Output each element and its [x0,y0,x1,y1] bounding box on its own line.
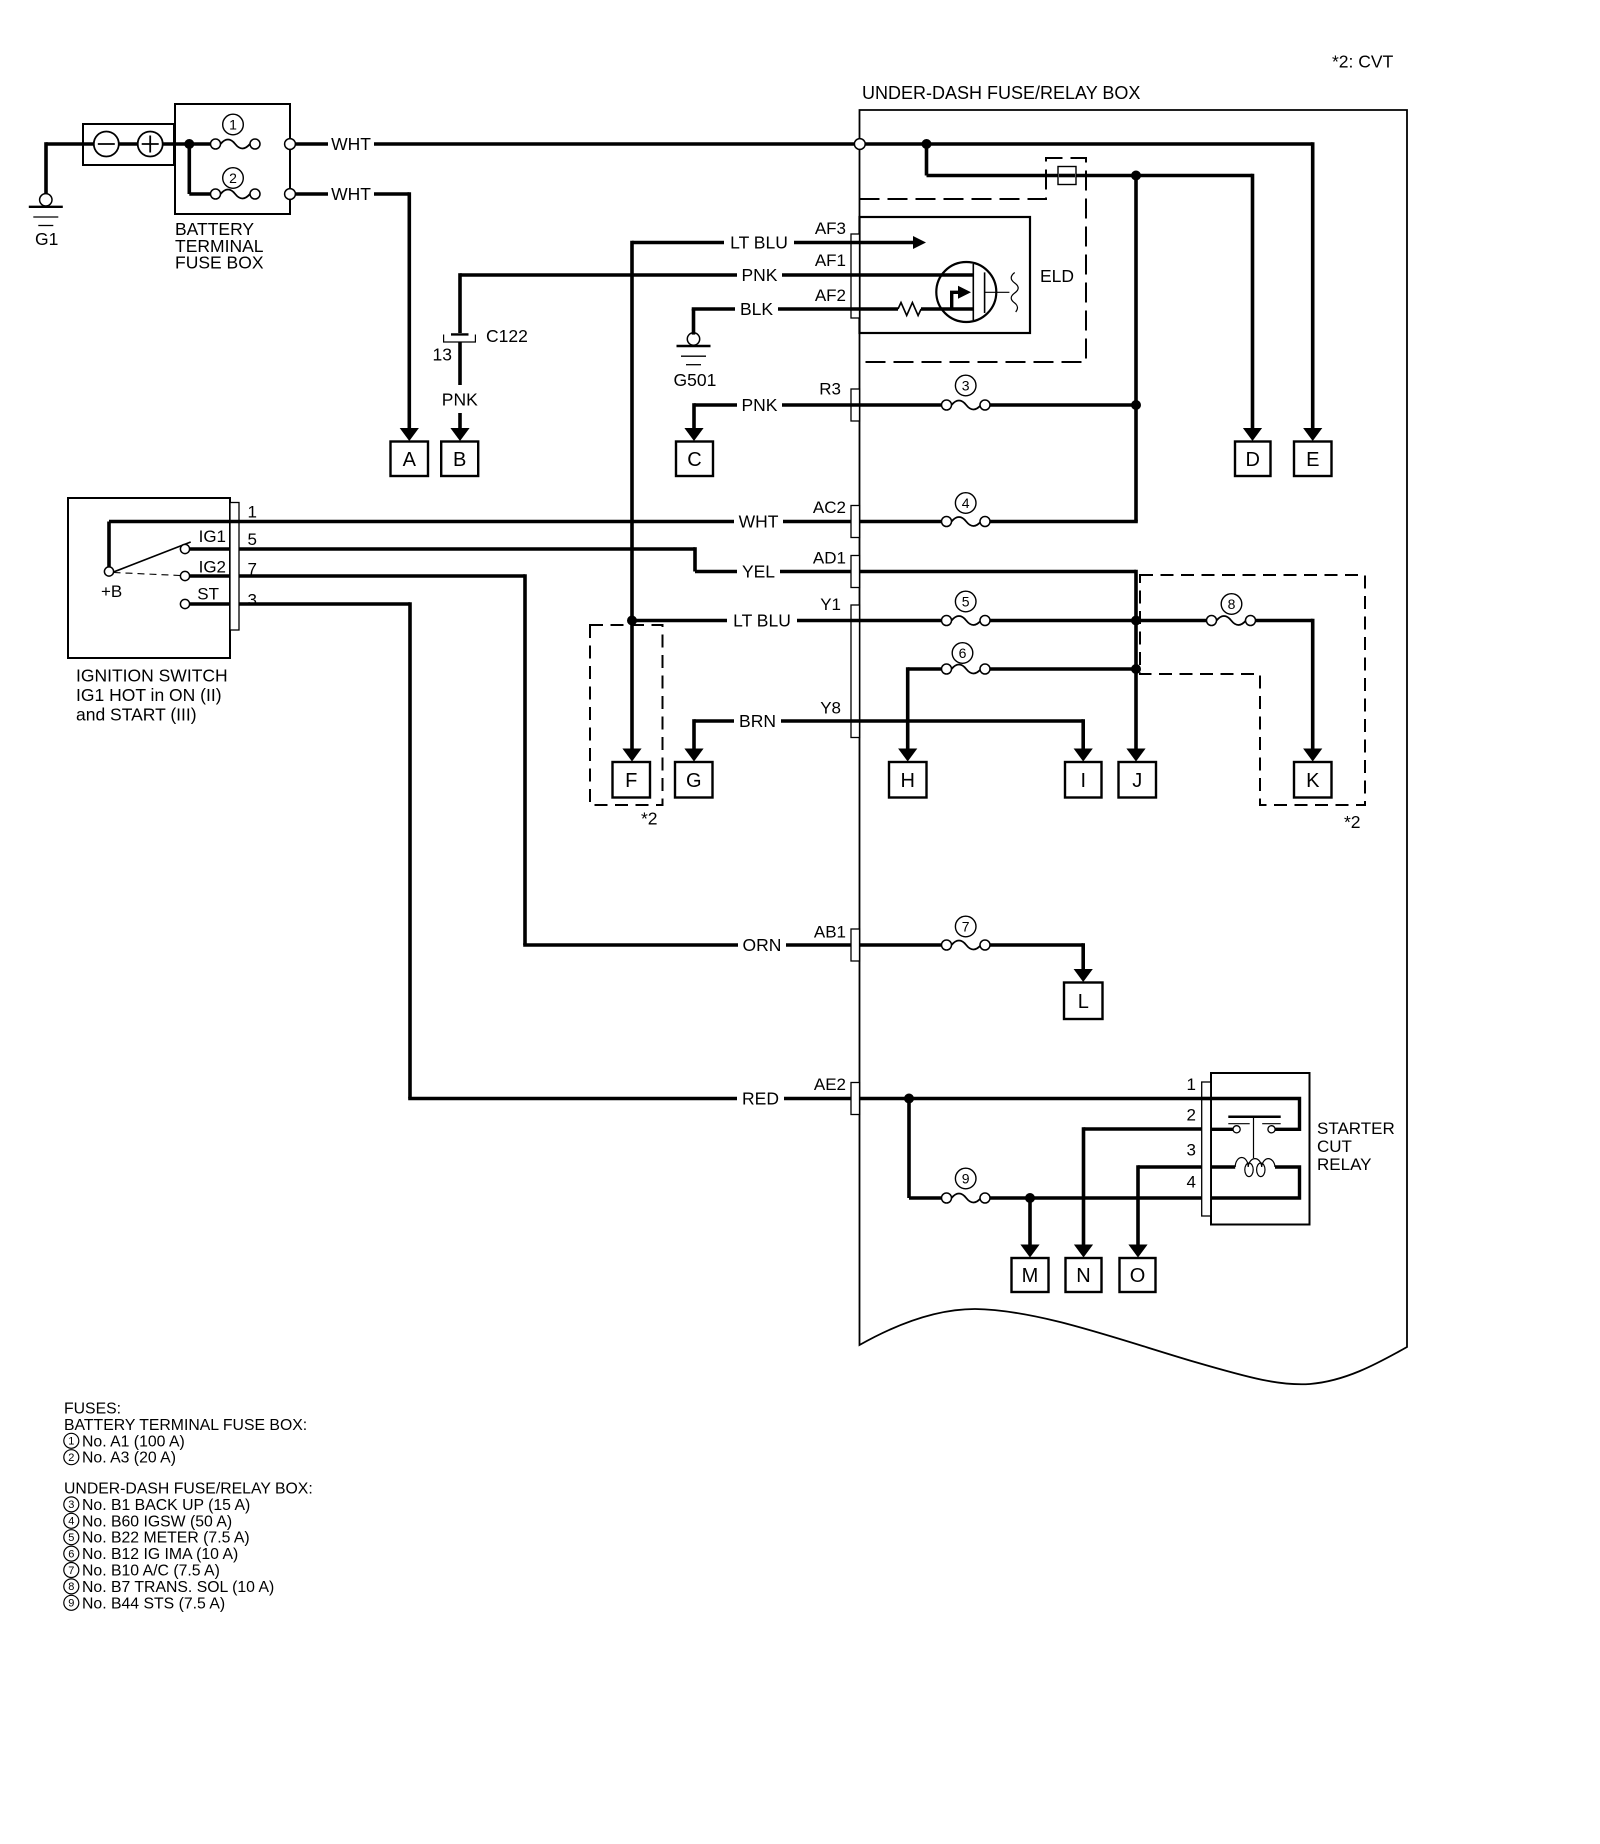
svg-text:+B: +B [101,582,122,601]
svg-text:J: J [1132,770,1142,792]
CVT dashed enclosure around fuse 8 and connector K [1140,575,1365,805]
arrow into M [1020,1245,1039,1258]
wire Y1 inside box to fuse 5 [860,619,942,623]
wire WHT ignition pin1 to AC2 [239,520,734,524]
ground G501 [687,333,699,345]
svg-text:D: D [1246,449,1260,471]
svg-text:AC2: AC2 [813,498,846,517]
svg-text:IG2: IG2 [199,558,226,577]
svg-text:AE2: AE2 [814,1075,846,1094]
wire LT BLU to AF3 [632,241,724,245]
svg-text:RED: RED [742,1089,779,1109]
connector J [1119,762,1157,798]
wire BLK from G501 to AF2 [692,309,696,335]
svg-text:H: H [901,770,915,792]
svg-text:6: 6 [959,645,967,661]
svg-text:E: E [1306,449,1319,471]
wire relay pin 2 to N [1084,1127,1202,1131]
arrow into G [684,749,703,762]
starter cut relay box [1211,1073,1310,1225]
svg-text:STARTER: STARTER [1317,1119,1395,1138]
output squiggle [1011,273,1018,313]
svg-text:A: A [403,449,417,471]
wire fuse 6 to H corner [908,667,942,671]
fuse 1 No. A1 [221,140,250,149]
wire AE2 to relay pin 1 [860,1097,1211,1101]
wire YEL ignition pin5 to AD1 [239,547,695,551]
arrow into F [622,749,641,762]
transistor channel bar [972,264,974,320]
svg-text:No. B12 IG IMA (10 A): No. B12 IG IMA (10 A) [82,1546,238,1563]
wire relay pin 3 to O [1138,1165,1202,1169]
wire battery feed [46,142,212,146]
svg-text:AF2: AF2 [815,286,846,305]
connector C [676,442,713,477]
relay pin3 internal wire [1211,1165,1236,1168]
terminal AE2 [851,1083,860,1115]
svg-text:RELAY: RELAY [1317,1155,1372,1174]
fuse 2 output terminal [285,189,296,200]
svg-text:ST: ST [197,585,219,604]
resistor in ELD [898,303,921,316]
connector F [613,762,651,798]
wire junction to fuse 2 [188,144,192,194]
svg-text:5: 5 [962,593,970,609]
relay coil [1235,1158,1275,1168]
relay contact fixed bars [1228,1123,1249,1125]
switch blade +B to IG1 [114,542,191,572]
svg-text:2: 2 [229,170,237,186]
svg-text:No. A1 (100 A): No. A1 (100 A) [82,1433,185,1450]
svg-text:PNK: PNK [742,265,778,285]
relay pin1 internal wire [1211,1099,1300,1130]
wire AD1 inside box to J vertical [860,570,1137,574]
wire PNK below C122 to B [458,342,462,385]
connector L [1064,983,1103,1020]
terminal AB1 [851,929,860,961]
svg-text:YEL: YEL [742,562,775,582]
svg-text:No. B44 STS (7.5 A): No. B44 STS (7.5 A) [82,1595,225,1612]
vertical bus AD1 to J [1134,570,1138,751]
dashed blade +B to IG2 [114,573,181,576]
wire AB1 inside box to fuse 7 [860,943,942,947]
svg-text:PNK: PNK [442,390,478,410]
svg-text:BRN: BRN [739,711,776,731]
arrow into B [450,428,469,441]
svg-text:O: O [1130,1265,1146,1287]
terminal R3 [851,389,860,421]
node ELD feed junction [1131,171,1141,181]
battery terminal fuse box [175,104,290,214]
ground G1 [40,194,52,206]
svg-text:7: 7 [68,1565,74,1577]
svg-text:3: 3 [248,591,257,610]
wire WHT inside box to E [865,142,1312,146]
terminal AD1 [851,556,860,588]
wire R3 inside box to fuse 3 [860,403,942,407]
arrow into N [1074,1245,1093,1258]
wire PNK to AF1 [460,273,737,277]
transistor gate arrow [952,292,959,309]
connector square on ELD feed [1058,167,1076,185]
main vertical bus D-branch to AC2 [1134,176,1138,522]
svg-text:3: 3 [1187,1141,1196,1160]
relay connector strip [1202,1082,1211,1216]
arrow into E [1303,428,1322,441]
AF terminal strip [851,234,860,318]
svg-text:Y1: Y1 [820,595,841,614]
terminal circle at box edge on WHT wire [854,139,865,150]
svg-text:IG1: IG1 [199,527,226,546]
svg-text:G501: G501 [674,370,717,390]
svg-text:AD1: AD1 [813,549,846,568]
relay pin 1 wire re-entry [1202,1097,1211,1101]
wire WHT fuse2 to A [295,192,328,196]
svg-text:No. B7 TRANS. SOL (10 A): No. B7 TRANS. SOL (10 A) [82,1579,274,1596]
wire PNK vertical to C122 [458,273,462,333]
svg-text:No. A3 (20 A): No. A3 (20 A) [82,1450,176,1467]
connector N [1066,1258,1102,1292]
svg-text:C: C [687,449,701,471]
svg-text:F: F [625,770,637,792]
wire fuse 7 to L [990,943,1083,947]
wire LT BLU junction to Y1 [632,619,727,623]
wire fuse 9 to relay pin 4 [990,1196,1211,1200]
Y terminal strip [851,605,860,738]
fuse 5 No. B22 METER [952,616,981,625]
wire BRN down to G [692,719,696,751]
arrow into I [1074,749,1093,762]
arrow into D [1243,428,1262,441]
arrow into L [1074,969,1093,982]
svg-text:3: 3 [68,1499,74,1511]
AF3 arrow inside ELD [860,241,915,245]
wire battery negative to ground G1 [44,142,48,193]
svg-text:M: M [1022,1265,1039,1287]
svg-text:PNK: PNK [742,395,778,415]
svg-text:Y8: Y8 [820,699,841,718]
svg-text:*2: *2 [1344,812,1361,832]
connector I [1065,762,1102,798]
svg-text:No. B1 BACK UP (15 A): No. B1 BACK UP (15 A) [82,1497,250,1514]
arrow into O [1128,1245,1147,1258]
wire AC2 inside box to fuse 4 [860,520,942,524]
wire fuse 6 to J vertical [990,667,1136,671]
relay armature link [1253,1117,1255,1158]
svg-text:4: 4 [962,495,970,511]
node WHT junction [922,139,932,149]
svg-text:5: 5 [68,1532,74,1544]
svg-text:G1: G1 [35,229,58,249]
fuse 8 No. B7 TRANS. SOL [1217,616,1246,625]
ignition switch connector strip [230,503,239,631]
wire Y8 inside box to I [860,719,1084,723]
wire LT BLU vertical to junction [630,241,634,621]
relay contact points [1233,1126,1240,1133]
terminal AC2 [851,506,860,538]
node battery feed junction [184,139,194,149]
battery negative terminal [94,132,119,157]
wire +B to pin 1 [107,522,111,568]
svg-text:WHT: WHT [331,134,371,154]
wire fuse 4 to main vertical [990,520,1138,524]
svg-text:1: 1 [229,116,237,132]
svg-text:FUSES:: FUSES: [64,1401,121,1418]
fuse 3 No. B1 BACK UP [952,401,981,410]
connector G [675,762,713,798]
wire down to H [906,667,910,751]
svg-text:BLK: BLK [740,299,773,319]
connector A [391,442,429,477]
wire BRN to Y8 [694,719,734,723]
svg-text:IGNITION SWITCH: IGNITION SWITCH [76,666,228,686]
svg-text:*2: *2 [641,809,658,829]
svg-text:1: 1 [1187,1075,1196,1094]
CVT dashed enclosure around connector F [590,625,663,805]
wire AF2 inside ELD through resistor [860,307,899,311]
wire junction down to M [1028,1198,1032,1247]
svg-text:IG1 HOT in ON (II): IG1 HOT in ON (II) [76,685,222,705]
svg-text:B: B [453,449,466,471]
connector K [1294,762,1332,798]
svg-text:FUSE BOX: FUSE BOX [175,253,264,273]
pin +B [104,567,113,576]
svg-text:N: N [1076,1265,1090,1287]
svg-text:2: 2 [1187,1106,1196,1125]
svg-text:CUT: CUT [1317,1137,1352,1156]
wire RED ignition pin3 to AE2 [239,602,410,606]
svg-text:I: I [1080,770,1086,792]
svg-text:7: 7 [962,918,970,934]
svg-text:*2: CVT: *2: CVT [1332,52,1394,72]
svg-text:AF1: AF1 [815,251,846,270]
battery positive terminal [138,132,163,157]
svg-text:BATTERY TERMINAL FUSE BOX:: BATTERY TERMINAL FUSE BOX: [64,1417,307,1434]
svg-text:WHT: WHT [331,184,371,204]
relay pin4 internal wire [1211,1167,1300,1198]
arrow wire to F [630,621,634,752]
svg-text:and START (III): and START (III) [76,705,197,725]
svg-text:4: 4 [1187,1173,1196,1192]
connector D [1235,442,1271,477]
inline connector C122 pin 13 [451,333,469,335]
fuse 6 No. B12 IG IMA [952,665,981,674]
wire AF1 inside ELD to transistor gate [860,273,974,277]
fuse 2 No. A3 [221,190,250,199]
svg-text:5: 5 [248,530,257,549]
arrow into A [400,428,419,441]
svg-text:9: 9 [962,1170,970,1186]
wire junction down and right to D [925,144,929,176]
svg-text:K: K [1306,770,1320,792]
arrow into J [1126,749,1145,762]
svg-text:C122: C122 [486,326,528,346]
relay contact bar [1228,1115,1280,1118]
connector H [889,762,927,798]
pin IG1 [180,544,189,553]
transistor output lead [985,291,1010,293]
wire ORN ignition pin7 to AB1 [239,574,525,578]
svg-text:1: 1 [248,503,257,522]
svg-text:No. B10 A/C (7.5 A): No. B10 A/C (7.5 A) [82,1563,220,1580]
svg-text:2: 2 [68,1452,74,1464]
svg-text:AB1: AB1 [814,923,846,942]
wire fuse 8 to K [1256,619,1313,623]
wire fuse 5 to fuse 8 [990,619,1207,623]
svg-text:1: 1 [68,1436,74,1448]
svg-text:R3: R3 [819,379,841,398]
battery [83,124,174,165]
wire WHT fuse1 to under-dash box [295,142,328,146]
arrow into K [1303,749,1322,762]
svg-text:8: 8 [68,1581,74,1593]
svg-text:No. B22 METER (7.5 A): No. B22 METER (7.5 A) [82,1530,250,1547]
fuse 1 output terminal [285,139,296,150]
svg-text:UNDER-DASH FUSE/RELAY BOX: UNDER-DASH FUSE/RELAY BOX [862,83,1140,103]
svg-text:4: 4 [68,1516,74,1528]
svg-text:LT BLU: LT BLU [730,233,788,253]
svg-text:ORN: ORN [743,935,782,955]
svg-text:9: 9 [68,1598,74,1610]
wire fuse 3 to main vertical [990,403,1136,407]
ELD unit box [860,217,1031,333]
svg-text:ELD: ELD [1040,266,1074,286]
ELD transistor circle [936,262,996,322]
ignition switch box [68,498,230,658]
fuse 4 No. B60 IGSW [952,517,981,526]
svg-text:13: 13 [433,345,452,365]
arrow into H [898,749,917,762]
pin ST [180,599,189,608]
pin IG2 [180,571,189,580]
svg-text:No. B60 IGSW (50 A): No. B60 IGSW (50 A) [82,1513,232,1530]
svg-text:G: G [686,770,702,792]
connector O [1120,1258,1156,1292]
transistor second bar [984,272,986,313]
svg-text:UNDER-DASH FUSE/RELAY BOX:: UNDER-DASH FUSE/RELAY BOX: [64,1481,313,1498]
fuse 7 No. B10 A/C [952,941,981,950]
svg-text:8: 8 [1228,596,1236,612]
svg-text:6: 6 [68,1548,74,1560]
connector E [1294,442,1332,477]
svg-text:L: L [1078,991,1089,1013]
arrow into C [684,428,703,441]
svg-text:WHT: WHT [739,512,779,532]
connector M [1012,1258,1049,1292]
connector B [441,442,478,477]
svg-text:LT BLU: LT BLU [733,611,791,631]
wire junction down to fuse 9 [907,1099,911,1199]
ELD dashed enclosure [860,158,1087,362]
relay pin2 internal wire [1211,1128,1233,1131]
svg-text:3: 3 [962,377,970,393]
under-dash fuse/relay box outline [860,110,1408,1384]
svg-text:AF3: AF3 [815,219,846,238]
wire PNK from R3 to C [694,403,737,407]
fuse 9 No. B44 STS [952,1194,981,1203]
